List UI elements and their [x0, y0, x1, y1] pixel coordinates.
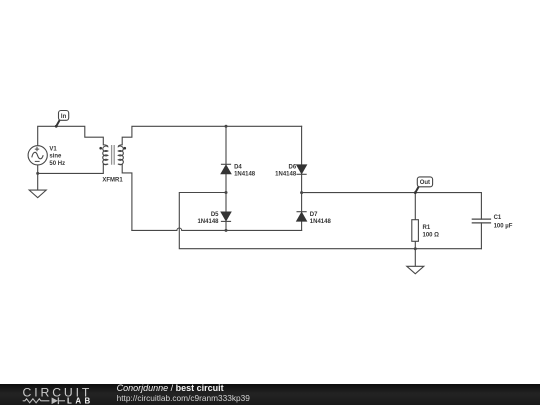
D4 labels [234, 164, 256, 177]
svg-text:LAB: LAB [67, 396, 94, 405]
ground (output) [407, 266, 424, 274]
svg-text:Conorjdunne / best circuit: Conorjdunne / best circuit [117, 383, 224, 393]
svg-text:50 Hz: 50 Hz [49, 161, 65, 167]
junction DC plus node [300, 191, 303, 194]
wire AC bottom rail with hop [132, 228, 302, 230]
svg-text:sine: sine [49, 154, 62, 160]
D6 labels [275, 164, 297, 177]
diode D7 [297, 212, 307, 222]
transformer phase dots [99, 147, 102, 150]
wire R1 branch [414, 193, 416, 267]
node Out flag [414, 177, 433, 194]
svg-text:1N4148: 1N4148 [197, 219, 219, 225]
wire bridge left branch [225, 126, 227, 230]
voltage source V1 [28, 146, 47, 165]
svg-text:100 µF: 100 µF [494, 224, 513, 230]
diode D6 [297, 165, 307, 175]
svg-text:D7: D7 [310, 212, 318, 218]
wire V1 bottom / primary bottom rail [38, 164, 104, 190]
diode D5 [221, 212, 231, 222]
D7 labels [310, 212, 332, 225]
wire V1 top to transformer primary [38, 126, 104, 145]
svg-text:1N4148: 1N4148 [310, 219, 332, 225]
svg-text:D6: D6 [289, 164, 297, 170]
wire DC plus rail [302, 193, 482, 249]
ground (V1) [29, 190, 46, 198]
svg-text:1N4148: 1N4148 [234, 171, 256, 177]
svg-text:1N4148: 1N4148 [275, 171, 297, 177]
transformer XFMR1 [103, 145, 124, 165]
footer bar [0, 384, 540, 405]
wire DC minus to bottom output rail [179, 193, 481, 249]
svg-text:XFMR1: XFMR1 [102, 178, 123, 184]
transformer core [112, 145, 115, 165]
svg-text:Out: Out [420, 180, 430, 186]
svg-text:http://circuitlab.com/c9ranm33: http://circuitlab.com/c9ranm333kp39 [117, 393, 251, 403]
V1 labels [49, 146, 65, 167]
R1 labels [423, 225, 440, 238]
junction V1 bottom / ground [36, 172, 39, 175]
D5 labels [197, 212, 219, 225]
svg-text:V1: V1 [49, 146, 57, 152]
diode D4 [221, 164, 231, 174]
wire secondary top to bridge top rail [122, 126, 301, 145]
wire bridge right branch [301, 126, 303, 230]
svg-text:100 Ω: 100 Ω [423, 233, 440, 239]
svg-text:C1: C1 [494, 215, 502, 221]
svg-text:D4: D4 [234, 164, 242, 170]
junction R1 bottom / ground / rail [414, 247, 417, 250]
junction AC bottom rail / D5 branch [225, 229, 228, 232]
junction DC minus node [225, 191, 228, 194]
capacitor C1 [472, 219, 491, 223]
logo diode [52, 398, 58, 405]
svg-text:In: In [61, 114, 67, 120]
resistor R1 [412, 220, 419, 242]
svg-text:D5: D5 [211, 212, 219, 218]
svg-text:R1: R1 [423, 225, 431, 231]
logo resistor zigzag [23, 399, 50, 403]
node In flag [55, 111, 69, 128]
C1 labels [494, 215, 513, 229]
wire secondary bottom [122, 165, 132, 231]
junction top rail / D4 branch [225, 125, 228, 128]
